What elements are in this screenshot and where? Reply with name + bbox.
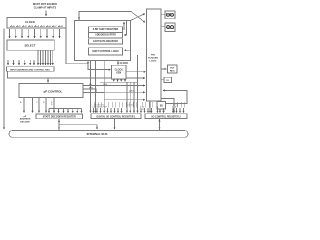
svg-text:SELECT: SELECT xyxy=(24,43,35,47)
svg-text:µP: µP xyxy=(24,116,27,118)
svg-text:SHIFT CONTROL LOGIC: SHIFT CONTROL LOGIC xyxy=(92,51,119,53)
svg-text:CLOCK: CLOCK xyxy=(115,69,124,71)
svg-text:A0 A1 A2 A3 A4 A5 A6 A7 A8: A0 A1 A2 A3 A4 A5 A6 A7 A8 xyxy=(10,25,65,28)
svg-text:1 0 1 0 1: 1 0 1 0 1 xyxy=(127,104,133,106)
svg-text:ADD/ODB BUFFER: ADD/ODB BUFFER xyxy=(95,34,116,37)
svg-text:GEN: GEN xyxy=(116,72,121,74)
svg-text:B: B xyxy=(20,102,22,104)
svg-text:CLOCK: CLOCK xyxy=(120,62,129,65)
svg-text:S: S xyxy=(51,104,53,106)
svg-text:STATE DECODER REGISTER: STATE DECODER REGISTER xyxy=(43,116,76,119)
svg-text:CLAMP AT INPUTS: CLAMP AT INPUTS xyxy=(34,6,57,9)
svg-text:INPUT ADDRESS AND CONTROL REG: INPUT ADDRESS AND CONTROL REG xyxy=(10,68,50,71)
svg-text:DACK: DACK xyxy=(129,90,135,93)
svg-text:1 0 1 0: 1 0 1 0 xyxy=(173,104,178,106)
svg-text:8-BIT DATA REGISTER: 8-BIT DATA REGISTER xyxy=(93,40,118,43)
svg-text:0 1 2: 0 1 2 xyxy=(140,107,144,109)
svg-text:R: R xyxy=(43,102,45,104)
svg-text:DECODE: DECODE xyxy=(20,121,30,123)
svg-text:µP CONTROL: µP CONTROL xyxy=(44,89,63,93)
svg-text:I/O CONTROL REGISTER 2: I/O CONTROL REGISTER 2 xyxy=(151,116,181,118)
svg-text:CLOCK: CLOCK xyxy=(25,20,35,24)
svg-text:DEN: DEN xyxy=(103,84,108,86)
svg-text:WR: WR xyxy=(89,87,93,89)
svg-text:FCN/GEN: FCN/GEN xyxy=(148,58,158,60)
svg-text:0 1: 0 1 xyxy=(142,109,144,111)
svg-text:IO: IO xyxy=(167,80,170,82)
svg-text:1 0 1 0 1 0 1 0: 1 0 1 0 1 0 1 0 xyxy=(94,104,104,106)
svg-text:REG: REG xyxy=(170,71,175,73)
svg-text:8-BIT SHIFT REGISTER: 8-BIT SHIFT REGISTER xyxy=(93,29,119,31)
svg-text:DIGITAL I/O CONTROL REGISTER 1: DIGITAL I/O CONTROL REGISTER 1 xyxy=(97,115,137,118)
svg-text:ADDRESS: ADDRESS xyxy=(20,118,31,121)
svg-text:4 5 6 7: 4 5 6 7 xyxy=(172,107,178,109)
svg-text:LOGIC: LOGIC xyxy=(150,61,157,63)
svg-text:PIN: PIN xyxy=(151,55,155,57)
svg-text:INTERNAL BUS: INTERNAL BUS xyxy=(87,132,108,136)
svg-text:OUT: OUT xyxy=(170,68,175,70)
svg-text:C: C xyxy=(36,102,38,104)
svg-text:RD: RD xyxy=(89,84,93,86)
svg-text:0 1 2 3 4 5 6 7 8 9: 0 1 2 3 4 5 6 7 8 9 xyxy=(93,107,108,109)
